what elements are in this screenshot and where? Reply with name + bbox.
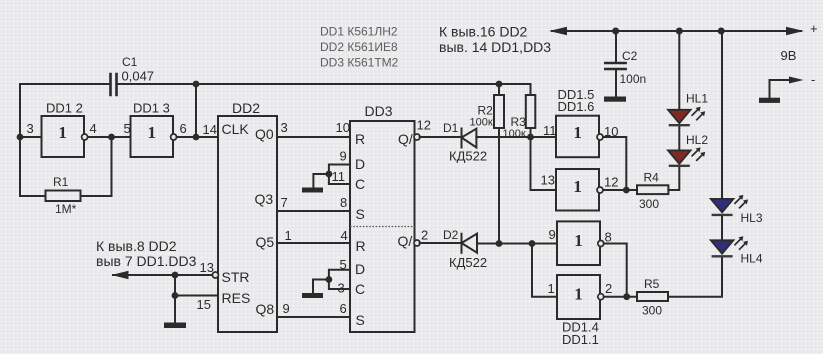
LED HL3: [711, 195, 748, 215]
capacitor C1: [111, 74, 117, 95]
svg-text:13: 13: [541, 173, 555, 188]
svg-text:R5: R5: [644, 277, 660, 291]
svg-text:Q3: Q3: [255, 191, 274, 207]
svg-text:5: 5: [124, 121, 131, 136]
inverter DD1 gate 9-8: [557, 221, 600, 265]
ground symbol DD3 lower: [302, 293, 323, 298]
bubble DD1.5 out pin 10: [597, 134, 603, 140]
svg-text:КД522: КД522: [449, 149, 487, 164]
svg-text:К выв.8 DD2: К выв.8 DD2: [96, 238, 177, 254]
junction R5 input node: [623, 293, 630, 300]
wire HL1 top: [678, 31, 680, 110]
svg-text:D: D: [355, 261, 365, 277]
wire C2 stub: [615, 31, 617, 97]
svg-text:10: 10: [336, 120, 350, 135]
svg-text:DD1 3: DD1 3: [133, 101, 170, 116]
LED HL1: [668, 107, 705, 125]
svg-text:12: 12: [417, 118, 431, 133]
wire R3 stubs: [530, 84, 532, 137]
svg-text:7: 7: [281, 195, 288, 210]
bubble STR input: [212, 272, 218, 278]
svg-text:R: R: [356, 238, 366, 254]
resistor R1: [46, 191, 81, 202]
wire DD2 Q8 to DD3 S (pins 9-6): [277, 316, 350, 318]
wire R5 to HL4: [668, 257, 722, 297]
svg-text:КД522: КД522: [449, 255, 487, 270]
svg-text:3: 3: [338, 281, 345, 296]
ground symbol battery minus: [759, 98, 780, 103]
svg-text:14: 14: [203, 122, 217, 137]
junction osc net top: [193, 81, 200, 88]
wire R4 to HL2: [668, 166, 679, 190]
svg-text:выв. 14 DD1,DD3: выв. 14 DD1,DD3: [439, 39, 551, 55]
svg-text:R1: R1: [53, 175, 69, 189]
bubble DD1.6 out pin 12: [597, 187, 603, 193]
power rail +9V: [552, 30, 801, 32]
ground symbol DD3 upper: [302, 188, 323, 193]
junction DD3 lower DC tie: [326, 276, 333, 283]
junction input node pin3: [17, 134, 24, 141]
LED HL4: [711, 236, 748, 256]
resistor R4: [637, 185, 668, 194]
svg-text:Q/: Q/: [398, 233, 413, 249]
junction STR line: [172, 272, 179, 279]
svg-text:выв 7 DD1.DD3: выв 7 DD1.DD3: [96, 253, 197, 269]
svg-text:9: 9: [283, 301, 290, 316]
svg-text:Q0: Q0: [255, 126, 274, 142]
resistor R2: [494, 95, 504, 128]
svg-text:15: 15: [197, 297, 211, 312]
svg-text:HL4: HL4: [741, 252, 763, 266]
svg-text:1: 1: [574, 284, 583, 303]
wire DD3 upper D-C tie (pins 9,11): [313, 165, 350, 188]
junction R3 bottom node: [527, 134, 534, 141]
svg-text:5: 5: [340, 257, 347, 272]
resistor R3: [526, 95, 536, 128]
svg-text:100к: 100к: [470, 117, 493, 129]
svg-text:R2: R2: [478, 104, 494, 118]
svg-text:13: 13: [200, 260, 214, 275]
ground symbol DD2 STR/RES: [164, 323, 186, 329]
svg-text:HL3: HL3: [741, 211, 763, 225]
bubble out pin 2g: [598, 294, 604, 300]
svg-text:0,047: 0,047: [122, 69, 155, 84]
svg-text:4: 4: [341, 228, 348, 243]
arrowhead power rail left: [549, 27, 567, 35]
junction rail C2: [612, 28, 619, 35]
diode D2: [462, 234, 478, 253]
svg-text:DD3: DD3: [365, 103, 393, 119]
junction R4 input node: [623, 187, 630, 194]
svg-text:1: 1: [285, 228, 292, 243]
wire pin12 to D1: [420, 136, 462, 138]
svg-text:C: C: [355, 176, 365, 192]
svg-text:4: 4: [90, 121, 97, 136]
inverter DD1.6: [556, 169, 599, 211]
inverter DD1.3: [131, 116, 174, 157]
wire D2 to pin 9: [477, 243, 557, 245]
svg-text:C1: C1: [122, 55, 138, 69]
diode D1: [462, 129, 477, 148]
wire D1 to pin 11: [476, 136, 556, 138]
bubble DD3 lower output Q/ pin 2: [414, 240, 420, 246]
svg-text:DD1 2: DD1 2: [46, 101, 83, 116]
svg-text:+: +: [810, 21, 818, 36]
svg-text:-: -: [811, 72, 815, 87]
svg-text:11: 11: [543, 123, 557, 138]
wire DD1.3 out to DD2 CLK: [177, 84, 218, 137]
wire DD2 Q0 to DD3 R (pins 3-10): [277, 136, 350, 138]
svg-text:DD3 К561ТМ2: DD3 К561ТМ2: [320, 56, 399, 70]
svg-text:2: 2: [605, 281, 612, 296]
wire input DD1.2: [20, 136, 42, 138]
svg-text:6: 6: [180, 121, 187, 136]
svg-text:12: 12: [604, 175, 618, 190]
junction R2 top: [496, 81, 503, 88]
wire pin8 to R5 node: [604, 244, 627, 297]
arrowhead power rail right: [786, 27, 804, 35]
svg-text:1M*: 1M*: [55, 202, 77, 216]
inverter bubble DD1.2: [82, 134, 88, 140]
svg-text:1: 1: [58, 123, 67, 142]
wire STR arrow line: [113, 274, 213, 276]
svg-text:300: 300: [642, 304, 662, 318]
svg-text:HL1: HL1: [686, 92, 708, 106]
junction R2 bottom / D2 line: [496, 240, 503, 247]
svg-text:300: 300: [639, 197, 659, 211]
inverter DD1.5: [556, 116, 599, 158]
inverter DD1 gate 1-2: [557, 275, 600, 319]
svg-text:DD1.1: DD1.1: [562, 332, 599, 347]
wire DD2 Q3 to DD3 S (pins 7-8): [277, 210, 350, 212]
LED HL2: [668, 147, 705, 165]
svg-text:D2: D2: [443, 228, 459, 242]
svg-text:STR: STR: [222, 269, 250, 285]
wire node to pin 13: [531, 137, 557, 190]
junction RES line: [172, 292, 179, 299]
svg-text:8: 8: [605, 230, 612, 245]
svg-text:9В: 9В: [781, 48, 797, 63]
wire pin2g to R5: [604, 296, 637, 298]
svg-text:2: 2: [421, 228, 428, 243]
svg-text:3: 3: [281, 120, 288, 135]
wire HL3 top: [721, 31, 723, 199]
wire R2 stubs: [498, 84, 500, 244]
arrowhead battery minus: [789, 77, 804, 84]
svg-text:9: 9: [549, 227, 556, 242]
svg-text:C: C: [355, 281, 365, 297]
svg-text:3: 3: [27, 121, 34, 136]
inverter DD1.2: [42, 116, 85, 157]
svg-text:Q5: Q5: [256, 234, 275, 250]
capacitor C2 plates: [605, 63, 625, 69]
junction rail HL1: [676, 28, 683, 35]
svg-text:C2: C2: [622, 49, 638, 63]
svg-text:11: 11: [332, 169, 346, 184]
svg-text:D1: D1: [443, 121, 459, 135]
wire DD3 lower D-C tie (pins 5,3): [313, 270, 350, 293]
svg-text:1: 1: [548, 281, 555, 296]
svg-text:DD2: DD2: [232, 100, 260, 116]
junction DD1.3 out node: [193, 134, 200, 141]
wire pin12g to R4: [603, 189, 637, 191]
resistor R5: [637, 292, 668, 301]
wire R1 row: [20, 137, 112, 196]
junction D2 line branch: [529, 240, 536, 247]
wire DD2 Q5 to DD3 R (pins 1-4): [277, 242, 350, 244]
svg-text:100к: 100к: [503, 128, 526, 140]
IC DD3 divider line: [350, 226, 415, 228]
svg-text:Q8: Q8: [256, 301, 275, 317]
svg-text:D: D: [355, 156, 365, 172]
svg-text:S: S: [356, 312, 365, 328]
bubble DD3 upper output Q/ pin 12: [414, 134, 420, 140]
svg-text:1: 1: [147, 123, 156, 142]
wire pin2 to D2: [420, 242, 462, 244]
junction DD1.2 out / R1: [108, 134, 115, 141]
wire HL3-HL4: [721, 216, 723, 241]
wire battery minus: [770, 80, 792, 98]
svg-text:DD2 К561ИЕ8: DD2 К561ИЕ8: [320, 40, 398, 54]
wire HL1-HL2: [678, 126, 680, 151]
svg-text:HL2: HL2: [686, 133, 708, 147]
svg-text:R4: R4: [644, 171, 660, 185]
svg-text:DD1 К561ЛН2: DD1 К561ЛН2: [320, 25, 398, 39]
svg-text:R3: R3: [511, 115, 527, 129]
svg-text:8: 8: [340, 195, 347, 210]
arrowhead STR line left: [112, 271, 129, 280]
wire node to pin 1: [532, 244, 557, 297]
svg-text:9: 9: [340, 149, 347, 164]
svg-text:К выв.16 DD2: К выв.16 DD2: [439, 24, 528, 40]
svg-text:DD1.6: DD1.6: [558, 99, 595, 114]
svg-text:RES: RES: [222, 290, 251, 306]
svg-text:1: 1: [573, 177, 582, 196]
svg-text:Q/: Q/: [398, 131, 413, 147]
svg-text:R: R: [355, 131, 365, 147]
ground symbol C2: [604, 97, 626, 102]
wire DD1.2 out to DD1.3 in: [88, 136, 131, 138]
IC DD2 box: [218, 116, 277, 332]
junction DD3 upper DC tie: [326, 171, 333, 178]
svg-text:1: 1: [574, 231, 583, 250]
bubble out pin 8: [598, 241, 604, 247]
wire top oscillator net y=84: [20, 84, 530, 196]
svg-text:6: 6: [340, 301, 347, 316]
inverter bubble DD1.3: [171, 134, 177, 140]
wire pin10 to R4 node: [603, 137, 626, 190]
svg-text:1: 1: [573, 123, 582, 142]
junction rail HL3: [718, 28, 725, 35]
svg-text:100n: 100n: [620, 72, 647, 86]
IC DD3 box: [350, 121, 415, 332]
svg-text:S: S: [356, 206, 365, 222]
svg-text:10: 10: [604, 124, 618, 139]
wire RES to ground: [175, 275, 218, 322]
svg-text:CLK: CLK: [222, 121, 250, 137]
